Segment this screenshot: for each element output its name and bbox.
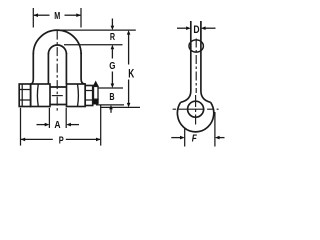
svg-text:P: P bbox=[59, 135, 64, 146]
svg-text:G: G bbox=[109, 60, 115, 72]
svg-text:K: K bbox=[128, 68, 134, 80]
svg-text:A: A bbox=[54, 119, 61, 131]
svg-text:B: B bbox=[109, 92, 114, 103]
svg-text:D: D bbox=[193, 24, 199, 36]
svg-text:M: M bbox=[54, 11, 60, 22]
svg-text:F: F bbox=[192, 134, 198, 145]
svg-text:R: R bbox=[110, 31, 115, 43]
